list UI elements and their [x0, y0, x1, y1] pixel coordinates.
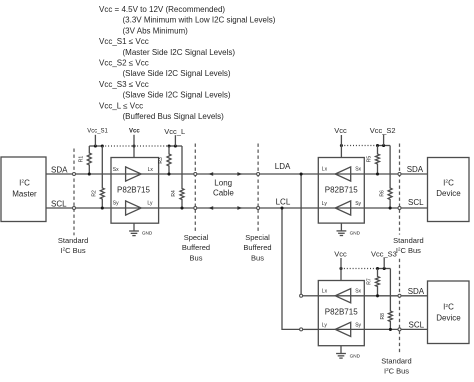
net Vcc_S2: [370, 126, 396, 145]
power rail over U1: [89, 144, 182, 147]
standard I2C bus dashed line (left): [73, 149, 76, 236]
ground below U3: [336, 346, 361, 359]
svg-text:GND: GND: [142, 231, 153, 236]
ground below U2: [337, 223, 361, 236]
svg-text:Standard: Standard: [393, 236, 423, 245]
svg-text:Buffered: Buffered: [182, 243, 210, 252]
svg-text:Vcc = 4.5V to 12V (Recommended: Vcc = 4.5V to 12V (Recommended): [99, 5, 225, 14]
svg-text:Ly: Ly: [147, 201, 153, 207]
svg-text:P82B715: P82B715: [325, 185, 358, 194]
special buffered bus dashed line (right): [257, 144, 260, 232]
svg-text:Vcc_S1 ≤ Vcc: Vcc_S1 ≤ Vcc: [99, 37, 149, 46]
svg-text:Standard: Standard: [58, 236, 88, 245]
node R1/SDA junction: [88, 172, 171, 175]
svg-text:GND: GND: [350, 353, 361, 358]
svg-text:Ly: Ly: [322, 201, 328, 207]
standard I2C bus dashed line (upper right): [398, 144, 401, 235]
svg-text:Lx: Lx: [322, 289, 328, 295]
resistor R7: [367, 269, 380, 296]
label Long Cable: [213, 179, 234, 198]
net Vcc (U3): [334, 249, 347, 280]
svg-text:Sx: Sx: [113, 167, 119, 173]
resistor R8: [380, 269, 392, 330]
net Vcc (U1): [129, 129, 140, 158]
label Special Buffered Bus (left): [182, 233, 210, 262]
op-amp buffer U1 P82B715 (master side): [111, 158, 159, 224]
node R7/SDA junction: [376, 294, 379, 297]
svg-text:Vcc_L: Vcc_L: [164, 127, 185, 136]
svg-text:Lx: Lx: [148, 167, 154, 173]
svg-text:I2C: I2C: [443, 303, 454, 312]
svg-text:(Slave Side I2C Signal Levels): (Slave Side I2C Signal Levels): [123, 91, 231, 100]
svg-text:Special: Special: [245, 233, 270, 242]
wire SDA main: [46, 173, 428, 175]
svg-text:Sy: Sy: [113, 201, 119, 207]
wire SDA lower (U3 to device): [318, 295, 427, 297]
svg-text:I2C Bus: I2C Bus: [396, 246, 421, 255]
svg-text:(Master Side I2C Signal Levels: (Master Side I2C Signal Levels): [123, 48, 236, 57]
long cable arrows on LCL: [208, 206, 242, 210]
node R6/SCL junction: [389, 206, 392, 209]
node R5/SDA junction: [376, 172, 379, 175]
svg-text:R8: R8: [380, 313, 386, 320]
net Vcc_S1: [87, 129, 108, 146]
resistor R6: [379, 146, 392, 209]
svg-text:LDA: LDA: [275, 162, 291, 171]
node R8/SCL junction: [389, 328, 392, 331]
standard I2C bus dashed line (lower right): [398, 259, 401, 353]
note: supply voltage annotations: [99, 5, 276, 121]
svg-text:R1: R1: [79, 156, 85, 163]
svg-text:SCL: SCL: [409, 320, 425, 329]
long cable arrows on LDA: [208, 172, 242, 176]
I2C Master box: [1, 157, 46, 222]
wire SCL lower (U3 to device): [318, 328, 427, 330]
I2C Device box (lower): [428, 281, 470, 344]
svg-text:Vcc_S1: Vcc_S1: [87, 129, 108, 135]
net Vcc_L: [164, 127, 185, 146]
I2C Device box (upper): [428, 158, 470, 222]
svg-text:P82B715: P82B715: [117, 185, 150, 194]
svg-text:Sx: Sx: [355, 167, 361, 173]
wire SCL main: [46, 207, 428, 209]
power rail over U3: [339, 267, 390, 270]
net Vcc (U2): [334, 126, 347, 157]
svg-text:R5: R5: [367, 156, 373, 163]
svg-text:Vcc_S2 ≤ Vcc: Vcc_S2 ≤ Vcc: [99, 59, 149, 68]
svg-text:SCL: SCL: [408, 198, 424, 207]
label Standard I2C Bus (left): [58, 236, 88, 255]
svg-text:Device: Device: [436, 314, 461, 323]
svg-text:SCL: SCL: [51, 200, 67, 209]
wire LDA branch down to U3: [300, 172, 319, 295]
svg-text:I2C: I2C: [443, 178, 454, 187]
svg-text:Sx: Sx: [355, 289, 361, 295]
power rail over U2: [340, 144, 390, 147]
special buffered bus dashed line (left): [194, 144, 197, 232]
svg-text:Long: Long: [214, 179, 232, 188]
op-amp buffer U3 P82B715 (slave side lower): [318, 281, 364, 346]
svg-text:Vcc_S3: Vcc_S3: [371, 249, 397, 258]
svg-text:Buffered: Buffered: [243, 243, 271, 252]
ground below U1: [129, 223, 153, 235]
svg-text:R4: R4: [171, 190, 177, 197]
resistor R3: [158, 146, 171, 174]
resistor R5: [367, 146, 380, 175]
node R2/SCL junction: [101, 206, 184, 209]
svg-text:Bus: Bus: [190, 253, 203, 262]
svg-text:SDA: SDA: [408, 287, 425, 296]
svg-text:Vcc_L ≤ Vcc: Vcc_L ≤ Vcc: [99, 101, 143, 110]
svg-text:(3V Abs Minimum): (3V Abs Minimum): [123, 26, 189, 35]
svg-text:Lx: Lx: [322, 167, 328, 173]
svg-text:Special: Special: [184, 233, 209, 242]
wire LCL branch down to U3: [280, 206, 318, 329]
label Standard I2C Bus (upper right): [393, 236, 423, 255]
net Vcc_S3: [371, 249, 397, 268]
svg-text:SDA: SDA: [407, 165, 424, 174]
svg-text:I2C Bus: I2C Bus: [384, 366, 409, 375]
svg-text:GND: GND: [350, 231, 361, 236]
resistor R1: [79, 146, 92, 174]
svg-text:Vcc_S2: Vcc_S2: [370, 126, 396, 135]
resistor R2: [92, 146, 105, 208]
label Standard I2C Bus (lower right): [381, 356, 411, 375]
svg-text:I2C: I2C: [19, 178, 30, 187]
svg-text:SDA: SDA: [51, 165, 68, 174]
op-amp buffer U2 P82B715 (slave side upper): [318, 158, 364, 224]
svg-text:R6: R6: [379, 190, 385, 197]
svg-text:I2C Bus: I2C Bus: [61, 246, 86, 255]
resistor R4: [171, 146, 184, 208]
svg-text:Bus: Bus: [251, 253, 264, 262]
svg-text:Vcc_S3 ≤ Vcc: Vcc_S3 ≤ Vcc: [99, 80, 149, 89]
svg-text:Sy: Sy: [355, 323, 361, 329]
svg-text:P82B715: P82B715: [325, 307, 358, 316]
svg-text:R7: R7: [367, 278, 373, 285]
svg-text:Standard: Standard: [381, 356, 411, 365]
label Special Buffered Bus (right): [243, 233, 271, 262]
svg-text:Vcc: Vcc: [129, 129, 140, 135]
svg-text:Ly: Ly: [322, 323, 328, 329]
svg-text:(Buffered Bus Signal Levels): (Buffered Bus Signal Levels): [123, 112, 225, 121]
svg-text:Master: Master: [12, 190, 37, 199]
svg-text:Vcc: Vcc: [334, 126, 347, 135]
svg-text:(Slave Side I2C Signal Levels): (Slave Side I2C Signal Levels): [123, 69, 231, 78]
svg-text:Vcc: Vcc: [334, 249, 347, 258]
svg-text:Device: Device: [436, 189, 461, 198]
svg-text:(3.3V Minimum with Low I2C sig: (3.3V Minimum with Low I2C signal Levels…: [123, 16, 276, 25]
svg-text:Sy: Sy: [355, 201, 361, 207]
svg-text:LCL: LCL: [276, 198, 291, 207]
node: buffered bus port circles at U3 inputs: [300, 294, 303, 331]
svg-text:R3: R3: [158, 157, 164, 164]
svg-text:R2: R2: [92, 190, 98, 197]
svg-text:Cable: Cable: [213, 189, 234, 198]
